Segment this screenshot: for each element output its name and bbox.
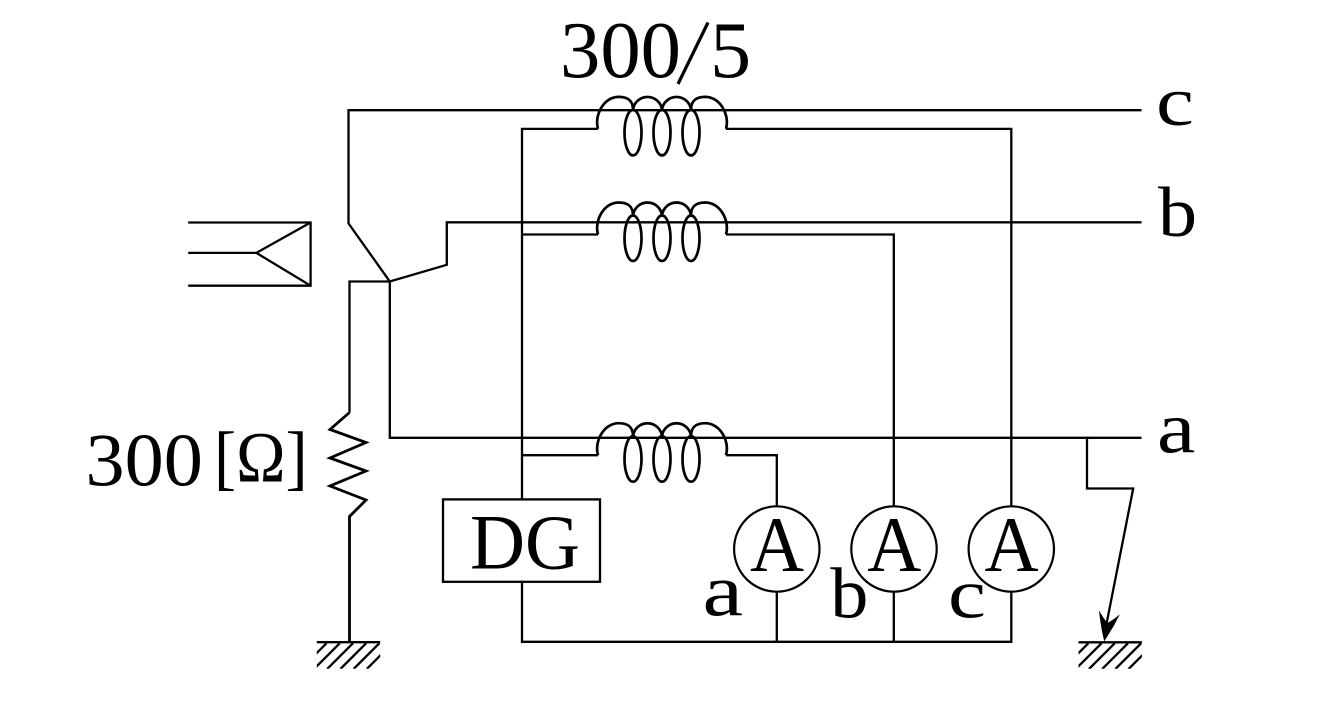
svg-text:b: b: [830, 553, 868, 633]
svg-text:b: b: [1158, 174, 1197, 252]
svg-text:300: 300: [86, 419, 203, 502]
svg-text:300: 300: [560, 6, 681, 95]
svg-text:[Ω]: [Ω]: [214, 417, 308, 497]
svg-text:A: A: [750, 501, 804, 588]
svg-text:A: A: [867, 501, 921, 588]
svg-text:a: a: [703, 551, 744, 633]
svg-text:5: 5: [710, 7, 751, 95]
svg-text:A: A: [985, 501, 1039, 588]
svg-text:c: c: [948, 557, 986, 634]
svg-text:a: a: [1157, 387, 1195, 468]
svg-text:c: c: [1156, 64, 1194, 141]
svg-text:DG: DG: [470, 499, 580, 586]
